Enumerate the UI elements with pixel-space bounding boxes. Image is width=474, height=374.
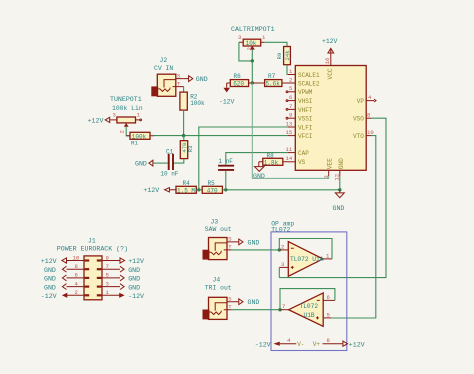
- global label +12V at R4: [143, 187, 176, 194]
- svg-text:VPWM: VPWM: [298, 89, 313, 96]
- IC pin 8 VSO: [353, 112, 371, 123]
- svg-text:+12V: +12V: [128, 258, 144, 265]
- IC pin 1 SCALE1: [288, 68, 320, 79]
- svg-text:VSO: VSO: [353, 116, 364, 123]
- wire J2 T down to R2: [183, 87, 185, 93]
- svg-text:VP: VP: [357, 98, 365, 105]
- svg-text:1.5 M: 1.5 M: [177, 187, 195, 194]
- global label +12V at opamp V+: [343, 341, 365, 348]
- resistor R9 24k: [276, 47, 291, 65]
- op-amp U1A TL072: [288, 242, 323, 277]
- svg-text:POWER EURORACK (?): POWER EURORACK (?): [57, 245, 128, 252]
- svg-text:6: 6: [327, 294, 330, 301]
- junction node C2 bottom: [224, 188, 227, 191]
- connector J1 POWER EURORACK: [57, 237, 128, 299]
- global label GND right of J1 pin3: [120, 284, 141, 292]
- svg-text:9: 9: [106, 254, 109, 261]
- svg-text:GND: GND: [333, 205, 345, 212]
- svg-text:GND: GND: [128, 276, 140, 283]
- junction node R4/R5: [197, 188, 200, 191]
- wire R5 to GND junction: [222, 189, 339, 191]
- wire R1 to VFCI pin15: [154, 135, 288, 137]
- IC pin 3 VEE (bottom): [323, 158, 334, 179]
- svg-text:VLFI: VLFI: [298, 124, 312, 131]
- svg-text:5: 5: [106, 272, 109, 279]
- junction node GND: [338, 188, 341, 191]
- svg-text:8: 8: [367, 112, 370, 119]
- resistor R7 5.6k: [252, 73, 288, 88]
- IC pin 6 VHSI: [286, 94, 312, 105]
- ground symbol at R8: [253, 162, 265, 180]
- svg-text:TRI out: TRI out: [205, 284, 232, 291]
- svg-text:J4: J4: [213, 277, 221, 284]
- svg-text:U1B: U1B: [304, 312, 315, 319]
- svg-text:10: 10: [367, 129, 374, 136]
- svg-text:5.6k: 5.6k: [265, 81, 280, 88]
- global label -12V at opamp V-: [255, 341, 280, 348]
- svg-text:7: 7: [282, 303, 285, 310]
- svg-text:2: 2: [281, 243, 284, 250]
- svg-text:VCC: VCC: [327, 68, 334, 79]
- wire J3 T to U1A pin2: [232, 249, 280, 251]
- svg-text:TL072: TL072: [300, 303, 319, 310]
- power +12V at VCC: [322, 38, 338, 53]
- svg-text:VSSI: VSSI: [298, 116, 312, 123]
- svg-text:GND: GND: [338, 158, 345, 169]
- svg-text:10 nF: 10 nF: [160, 170, 178, 177]
- svg-text:SAW out: SAW out: [205, 226, 232, 233]
- connector J2 CV IN jack: [151, 57, 184, 96]
- svg-text:470: 470: [207, 187, 218, 194]
- svg-text:R1: R1: [131, 139, 138, 146]
- global label GND at J4: [232, 299, 260, 306]
- wire VEE path (pale): [252, 83, 328, 178]
- potentiometer TUNEPOT1: [110, 96, 143, 134]
- U1B pin 5: [323, 317, 331, 319]
- capacitor C1 10nF: [153, 148, 178, 177]
- global label +12V at TUNEPOT1: [88, 117, 112, 124]
- svg-text:-12V: -12V: [255, 341, 271, 348]
- svg-text:GND: GND: [128, 284, 140, 291]
- IC pin 15 VFCI: [286, 129, 313, 140]
- J1 pin 10: [67, 254, 89, 261]
- J1 pin 4: [67, 280, 89, 287]
- svg-text:5: 5: [327, 311, 330, 318]
- J1 pin 5: [97, 272, 120, 279]
- junction node wiper: [251, 59, 254, 62]
- global label +12V left of J1: [41, 258, 67, 265]
- J1 pin 8: [67, 263, 89, 270]
- svg-text:6: 6: [289, 94, 292, 101]
- global label -12V right of J1: [119, 293, 144, 300]
- J1 pin 3: [97, 280, 120, 287]
- svg-text:VEE: VEE: [327, 158, 334, 169]
- svg-text:3: 3: [113, 111, 116, 118]
- svg-text:24k: 24k: [284, 50, 291, 61]
- svg-text:7: 7: [106, 263, 109, 270]
- svg-text:+12V: +12V: [349, 341, 365, 348]
- resistor R3 470: [180, 136, 194, 159]
- ground symbol under IC: [333, 190, 345, 212]
- svg-text:8: 8: [75, 263, 78, 270]
- svg-text:10: 10: [73, 254, 80, 261]
- svg-text:10k: 10k: [246, 40, 257, 47]
- svg-text:7: 7: [289, 103, 292, 110]
- svg-text:J2: J2: [160, 57, 168, 64]
- U1A pin 3: [279, 266, 288, 268]
- svg-text:SCALE2: SCALE2: [298, 80, 320, 87]
- svg-text:6: 6: [75, 272, 78, 279]
- svg-text:R3: R3: [187, 145, 194, 152]
- wire R3 bottom to C1: [174, 159, 184, 164]
- svg-text:V+: V+: [313, 341, 321, 348]
- J1 pin 1: [97, 289, 120, 296]
- wire trimpot pin3 to junction: [239, 42, 252, 61]
- svg-text:CALTRIMPOT1: CALTRIMPOT1: [231, 26, 275, 33]
- IC pin 10 VTO: [353, 129, 374, 140]
- IC U3 VCO pin16 VCC: [330, 54, 332, 66]
- svg-text:SCALE1: SCALE1: [298, 72, 320, 79]
- IC pin 14 VS: [286, 155, 306, 166]
- IC pin 9 VSSI: [286, 112, 312, 123]
- wire GND pin to junction: [339, 176, 341, 190]
- svg-text:+12V: +12V: [322, 38, 338, 45]
- global label -12V left of J1: [41, 293, 68, 300]
- resistor R5 470: [196, 180, 222, 195]
- IC pin 13 VLFI: [286, 120, 313, 131]
- svg-text:2: 2: [289, 76, 292, 83]
- global label GND right of J1 pin7: [120, 266, 141, 274]
- junction node U1B pin7: [278, 308, 281, 311]
- svg-text:GND: GND: [128, 267, 140, 274]
- wire trimpot pin1 to R9: [264, 42, 287, 46]
- svg-text:GND: GND: [44, 276, 56, 283]
- wire junction down to R6/R7 row: [251, 61, 253, 83]
- svg-text:620: 620: [233, 81, 244, 88]
- svg-text:GND: GND: [135, 161, 147, 168]
- svg-text:+12V: +12V: [41, 258, 57, 265]
- global label GND at C1: [135, 160, 153, 167]
- IC pin 7 VHFT: [286, 103, 313, 114]
- global label GND right of J1 pin5: [120, 275, 141, 283]
- junction node R1/R2/R3: [182, 134, 185, 137]
- wire U1A feedback: [279, 239, 332, 259]
- svg-text:VTO: VTO: [353, 133, 364, 140]
- svg-text:5: 5: [289, 85, 292, 92]
- IC pin 2 SCALE2: [288, 76, 320, 87]
- resistor R4 1.5M: [176, 180, 196, 195]
- svg-text:1.8k: 1.8k: [264, 159, 279, 166]
- svg-text:TL072 U1A: TL072 U1A: [290, 256, 324, 263]
- global label GND left of J1 pin4: [44, 284, 67, 292]
- J1 pin 2: [67, 289, 89, 296]
- U1A pin 1 output: [323, 258, 332, 260]
- junction node U1A pin2: [278, 248, 281, 251]
- wire TUNEPOT wiper to R1: [126, 127, 130, 136]
- wire U1A pin3 down: [278, 267, 280, 277]
- global label GND left of J1 pin8: [44, 266, 67, 274]
- svg-text:GND: GND: [253, 173, 265, 180]
- connector J4 TRI out jack: [203, 277, 233, 320]
- svg-text:CV IN: CV IN: [154, 65, 173, 72]
- svg-text:14: 14: [286, 155, 293, 162]
- svg-text:J1: J1: [88, 237, 96, 244]
- op-amp U1B TL072 (mirrored): [289, 293, 324, 326]
- resistor R2 100k: [180, 92, 205, 110]
- IC pin 12 GND (bottom): [333, 158, 345, 181]
- wire R9 bottom to SCALE1 pin: [287, 65, 288, 75]
- wire trimpot wiper down: [251, 50, 253, 61]
- wire VSO to U1A pin3: [279, 118, 386, 277]
- U1A pin 2: [279, 249, 288, 251]
- J1 pin 6: [67, 272, 89, 279]
- svg-text:+12V: +12V: [143, 187, 159, 194]
- svg-text:GND: GND: [44, 284, 56, 291]
- svg-text:TUNEPOT1: TUNEPOT1: [110, 96, 142, 103]
- U1B power pin 8 V+: [313, 337, 343, 348]
- svg-text:9: 9: [289, 112, 292, 119]
- J1 pin 7: [97, 263, 120, 270]
- IC pin 5 VPWM: [286, 85, 313, 96]
- wire U1B feedback: [280, 289, 335, 310]
- svg-text:R9: R9: [276, 53, 283, 60]
- svg-text:2: 2: [75, 289, 78, 296]
- power -12V at R6: [219, 83, 235, 105]
- svg-text:16: 16: [324, 58, 331, 65]
- global label GND at J3: [232, 239, 260, 246]
- svg-text:11: 11: [286, 146, 293, 153]
- svg-text:-12V: -12V: [41, 293, 57, 300]
- IC pin 11 CAP: [286, 146, 310, 157]
- resistor R1 100k: [126, 132, 154, 146]
- wire J4 T to U1B pin7: [232, 309, 280, 311]
- svg-text:V-: V-: [297, 341, 304, 348]
- svg-text:100k: 100k: [190, 100, 205, 107]
- U1B power pin 4 V-: [280, 337, 304, 348]
- op-amp section box TL072: [271, 221, 347, 351]
- wire VLFI pin13 to R4/R5 junction: [199, 127, 288, 190]
- svg-text:3: 3: [281, 261, 284, 268]
- svg-text:-12V: -12V: [128, 293, 144, 300]
- svg-text:GND: GND: [248, 299, 260, 306]
- wire R2 bottom to junction: [183, 110, 185, 136]
- svg-text:GND: GND: [248, 239, 260, 246]
- svg-text:GND: GND: [196, 76, 208, 83]
- U1B pin 7 output: [280, 309, 289, 311]
- svg-text:-12V: -12V: [219, 98, 235, 105]
- connector J3 SAW out jack: [203, 218, 233, 259]
- IC pin 4 VP: [357, 94, 376, 105]
- global label GND left of J1 pin6: [44, 275, 67, 283]
- J1 pin 9: [97, 254, 120, 261]
- svg-text:J3: J3: [211, 218, 219, 225]
- svg-text:8: 8: [327, 337, 330, 344]
- junction node R6/R7: [251, 81, 254, 84]
- svg-text:3: 3: [106, 280, 109, 287]
- U1B pin 6: [323, 299, 335, 301]
- trimpot CALTRIMPOT1: [231, 26, 275, 51]
- svg-text:VFCI: VFCI: [298, 133, 312, 140]
- svg-text:VHFT: VHFT: [298, 107, 313, 114]
- svg-text:VHSI: VHSI: [298, 98, 312, 105]
- capacitor C2 1nF: [218, 153, 288, 190]
- svg-text:2: 2: [119, 130, 126, 133]
- global label +12V right of J1: [120, 258, 145, 265]
- svg-text:VS: VS: [298, 159, 306, 166]
- global label GND at J2: [184, 76, 208, 83]
- svg-text:3: 3: [323, 175, 330, 178]
- svg-text:+12V: +12V: [88, 118, 104, 125]
- wire VTO to U1B pin5: [331, 136, 376, 318]
- svg-text:CAP: CAP: [298, 150, 309, 157]
- svg-text:13: 13: [286, 120, 293, 127]
- svg-text:15: 15: [286, 129, 293, 136]
- resistor R6 620: [227, 73, 253, 88]
- svg-text:3: 3: [238, 34, 241, 41]
- resistor R8 1.8k: [259, 153, 288, 167]
- IC U3 VCO body: [295, 66, 366, 171]
- svg-text:GND: GND: [44, 267, 56, 274]
